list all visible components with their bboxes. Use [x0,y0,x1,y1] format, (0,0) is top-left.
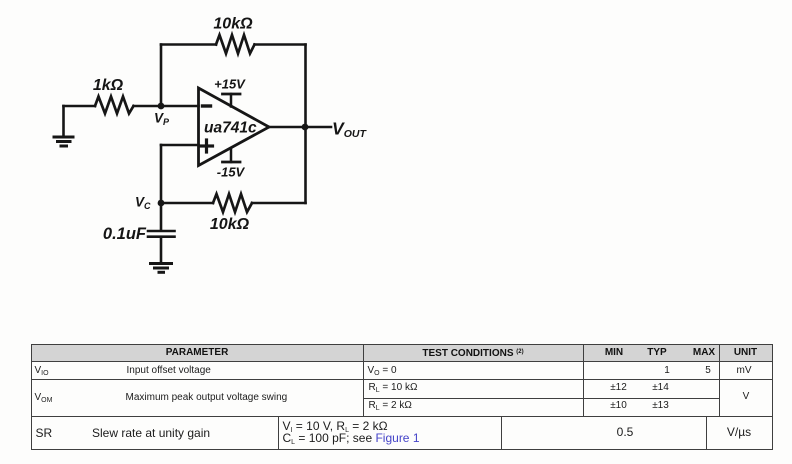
node VOUT (output junction dot) [302,124,309,131]
header texts [166,347,229,358]
svg-text:VOUT: VOUT [332,119,367,141]
wire (R3 to right vertical bus) [252,202,306,205]
wire (vertical from + input down to node VC) [160,145,163,203]
node VP (junction dot) [158,103,165,110]
svg-text:-15V: -15V [217,165,246,180]
resistor R1 1kΩ (zigzag) [95,97,134,114]
wire (VC to resistor R3) [161,202,213,205]
rows 2-3 : VOM [35,392,53,403]
row 1 : VIO [35,365,49,376]
ground (left input ground) [54,106,73,146]
wire (R1 to op-amp inverting input, through node VP) [134,105,199,108]
wire (top feedback, right segment) [255,43,306,46]
wire (VP up to feedback resistor R2) [160,45,163,107]
row 4 : SR [36,427,53,440]
svg-text:10kΩ: 10kΩ [210,216,250,233]
header background [31,344,772,361]
svg-text:+15V: +15V [214,77,246,92]
wire (op-amp output to VOUT) [269,126,331,129]
resistor R2 10kΩ (feedback zigzag) [216,35,255,54]
wire (right vertical bus from feedback to output and R3) [304,45,307,204]
svg-text:10kΩ: 10kΩ [213,16,253,33]
wire (capacitor to bottom ground) [160,238,163,264]
wire (input ground to resistor R1) [64,105,96,108]
ground (below capacitor C1) [151,264,172,273]
capacitor C1 0.1uF (two plates) [148,231,175,237]
op-amp U1 ua741c (triangle body) [199,88,270,166]
svg-text:0.1uF: 0.1uF [103,225,147,243]
vertical rules [31,344,32,450]
pin - (inverting input marker) [203,104,211,107]
power -15V (negative supply stub and rail bar) [223,149,241,163]
svg-text:1kΩ: 1kΩ [93,77,124,94]
svg-text:ua741c: ua741c [204,120,257,137]
svg-text:VC: VC [135,195,151,212]
wire (non-inverting input to VC vertical) [161,144,199,147]
wire (top feedback, left segment) [161,43,216,46]
wire (VC down to capacitor C1) [160,203,163,230]
resistor R3 10kΩ (lower feedback zigzag) [213,194,252,212]
power +15V (positive supply stub and rail bar) [223,94,241,107]
svg-text:VP: VP [154,111,170,128]
horizontal rules [31,344,773,345]
node VC (junction dot) [158,200,165,207]
pin + (non-inverting input marker) [201,140,213,152]
